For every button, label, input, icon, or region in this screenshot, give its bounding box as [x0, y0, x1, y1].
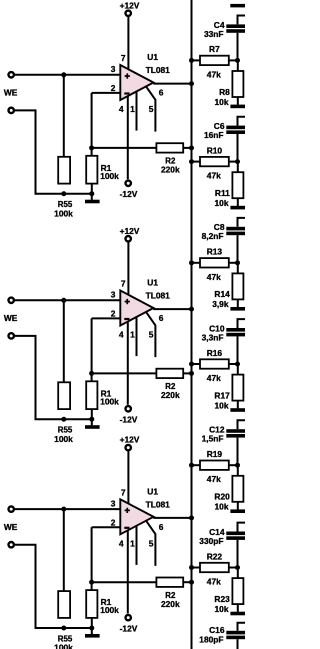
svg-text:16nF: 16nF — [204, 130, 224, 140]
node feedback junction (section 2) — [89, 371, 94, 376]
op-amp U1 triangle (section 3) — [120, 499, 153, 534]
wire C16 top lead to edge — [238, 623, 246, 631]
ground bar below R17 — [230, 408, 245, 412]
node bus junction R10 — [189, 159, 194, 164]
svg-text:7: 7 — [121, 53, 126, 63]
wire pin7 supply (section 3) — [127, 451, 129, 504]
svg-text:+12V: +12V — [120, 0, 140, 10]
svg-text:4: 4 — [119, 104, 124, 114]
junction on WE1 wire (section 3) — [61, 507, 66, 512]
svg-text:6: 6 — [159, 522, 164, 532]
resistor R22 — [200, 563, 229, 572]
svg-text:-12V: -12V — [120, 624, 138, 634]
svg-text:R14: R14 — [214, 289, 230, 299]
wire C6 top lead to edge — [238, 117, 246, 126]
wire C12 bottom lead — [237, 438, 239, 466]
svg-text:10k: 10k — [215, 400, 229, 410]
svg-text:100k: 100k — [54, 643, 73, 649]
node WE input 2 terminal (section 3) — [9, 542, 14, 547]
node output bus junction (section 2) — [189, 307, 194, 312]
wire R13 to node — [229, 262, 238, 264]
junction R55 bottom (section 2) — [61, 417, 66, 422]
svg-text:47k: 47k — [207, 171, 221, 181]
wire R8 top stub — [237, 60, 239, 71]
svg-text:1: 1 — [130, 538, 135, 548]
svg-text:R8: R8 — [219, 87, 230, 97]
capacitor C16 top plate — [226, 631, 245, 635]
svg-text:R17: R17 — [214, 390, 230, 400]
svg-text:7: 7 — [121, 487, 126, 497]
svg-text:R10: R10 — [207, 145, 223, 155]
junction R1 bottom (section 3) — [89, 626, 94, 631]
resistor R11 — [232, 172, 243, 198]
wire output to bus (section 3) — [153, 517, 191, 519]
wire R1 top stub (section 2) — [91, 373, 93, 381]
wire C10 bottom lead — [237, 336, 239, 364]
resistor R55 (section 3) — [58, 591, 70, 618]
wire C14 top lead to edge — [238, 523, 246, 532]
svg-text:WE: WE — [4, 522, 18, 532]
svg-text:10k: 10k — [215, 502, 229, 512]
wire feedback vertical (section 2) — [91, 318, 93, 373]
ground bar below R20 — [230, 509, 245, 513]
svg-text:2: 2 — [111, 309, 116, 319]
node bus junction R19 — [189, 463, 194, 468]
wire WE2 down to bottom rail (section 1) — [14, 110, 93, 193]
svg-text:100k: 100k — [54, 208, 73, 218]
wire junction down to resistor (section 3) — [63, 509, 65, 591]
wire output to bus (section 2) — [153, 308, 191, 310]
svg-text:3: 3 — [111, 290, 116, 300]
svg-text:220k: 220k — [161, 390, 180, 400]
wire R11 ground stub — [237, 198, 239, 206]
vertical signal bus — [191, 0, 193, 649]
wire bus to R7 — [192, 59, 201, 61]
capacitor C14 top plate — [226, 532, 245, 536]
wire R16 to node — [229, 363, 238, 365]
wire bus to R22 — [192, 567, 201, 569]
node output bus junction (section 3) — [189, 515, 194, 520]
svg-text:R11: R11 — [215, 188, 230, 198]
capacitor C14 bottom plate — [226, 536, 245, 540]
wire WE1 to pin3 (section 1) — [14, 74, 119, 76]
svg-text:R7: R7 — [209, 44, 220, 54]
svg-text:2: 2 — [111, 517, 116, 527]
svg-text:100k: 100k — [100, 171, 119, 181]
node WE input 1 terminal (section 3) — [9, 506, 14, 511]
power -12V terminal (section 1) — [126, 181, 131, 186]
op-amp U1 plus input mark (section 2) — [125, 301, 130, 303]
node R7/R8 junction — [235, 58, 240, 63]
svg-text:100k: 100k — [100, 605, 119, 615]
pin 2 wire inverting input (section 1) — [92, 92, 120, 94]
pin 2 wire inverting input (section 2) — [92, 317, 120, 319]
svg-text:100k: 100k — [54, 434, 73, 444]
op-amp U1 minus input mark (section 2) — [124, 318, 129, 320]
power +12V terminal (section 1) — [126, 11, 131, 16]
wire R2 to bus (section 1) — [183, 147, 191, 149]
svg-text:4: 4 — [119, 330, 124, 340]
wire WE1 to pin3 (section 2) — [14, 299, 119, 301]
node output bus junction (section 1) — [189, 81, 194, 86]
node bus junction R16 — [189, 362, 194, 367]
svg-text:3: 3 — [111, 64, 116, 74]
op-amp U1 plus input mark (section 3) — [125, 510, 130, 512]
wire C4 bottom lead — [237, 33, 239, 61]
resistor R8 — [232, 71, 243, 97]
wire R1 bottom stub (section 1) — [91, 183, 93, 193]
pin 4 wire to -12V (section 1) — [127, 96, 129, 179]
svg-text:TL081: TL081 — [146, 65, 171, 75]
node R2 bus junction (section 1) — [189, 145, 194, 150]
node R2 bus junction (section 2) — [189, 371, 194, 376]
resistor R55 (section 2) — [58, 382, 70, 409]
wire R20 ground stub — [237, 502, 239, 510]
capacitor C16 bottom plate — [226, 636, 245, 640]
node R16/R17 junction — [235, 362, 240, 367]
power -12V terminal (section 2) — [126, 406, 131, 411]
wire R2 to bus (section 2) — [183, 372, 191, 374]
wire R20 top stub — [237, 465, 239, 476]
wire R23 ground stub — [237, 604, 239, 612]
wire bus to R19 — [192, 464, 201, 466]
svg-text:3,9k: 3,9k — [212, 299, 229, 309]
pin 4 wire to -12V (section 3) — [127, 531, 129, 614]
node bus junction R22 — [189, 565, 194, 570]
resistor R23 — [232, 578, 243, 604]
wire R8 ground stub — [237, 97, 239, 105]
svg-text:47k: 47k — [207, 69, 221, 79]
svg-text:47k: 47k — [207, 272, 221, 282]
resistor R1 (section 1) — [86, 156, 97, 184]
ground bar below R11 — [230, 206, 245, 210]
svg-text:3,3nF: 3,3nF — [202, 332, 224, 342]
wire bus to R13 — [192, 262, 201, 264]
svg-text:R23: R23 — [214, 594, 230, 604]
op-amp U1 plus input mark (section 1) — [125, 75, 130, 77]
capacitor C8 top plate — [226, 227, 245, 231]
svg-text:10k: 10k — [215, 604, 229, 614]
wire R11 top stub — [237, 162, 239, 173]
node bus junction R13 — [189, 260, 194, 265]
resistor R13 — [200, 258, 229, 267]
svg-text:6: 6 — [159, 88, 164, 98]
capacitor C12 bottom plate — [226, 434, 245, 438]
svg-text:+12V: +12V — [120, 435, 140, 445]
op-amp U1 triangle (section 1) — [120, 65, 153, 100]
junction on WE1 wire (section 1) — [61, 72, 66, 77]
node feedback junction (section 1) — [89, 145, 94, 150]
svg-text:2: 2 — [111, 83, 116, 93]
wire R14 ground stub — [237, 299, 239, 307]
node R19/R20 junction — [235, 463, 240, 468]
svg-text:WE: WE — [4, 88, 18, 98]
wire C16 bottom lead — [237, 639, 239, 649]
ground bar of cut-off unit at top right — [230, 4, 245, 8]
pin 4 wire to -12V (section 2) — [127, 322, 129, 405]
wire junction down to resistor (section 1) — [63, 75, 65, 157]
wire R22 to node — [229, 567, 238, 569]
node bus junction R7 — [189, 58, 194, 63]
resistor R1 (section 3) — [86, 590, 97, 618]
power +12V terminal (section 3) — [126, 445, 131, 450]
ground stub (section 1) — [91, 194, 93, 200]
svg-text:47k: 47k — [207, 577, 221, 587]
svg-text:R20: R20 — [214, 492, 230, 502]
node WE input 2 terminal (section 2) — [9, 333, 14, 338]
wire bus to R16 — [192, 363, 201, 365]
svg-text:U1: U1 — [147, 52, 158, 62]
wire feedback vertical (section 3) — [91, 527, 93, 582]
resistor R2 (section 1) — [156, 143, 183, 152]
svg-text:R16: R16 — [207, 348, 223, 358]
wire R10 to node — [229, 161, 238, 163]
node WE input 1 terminal (section 2) — [9, 298, 14, 303]
wire WE1 to pin3 (section 3) — [14, 508, 119, 510]
pin 1 wire offset null (section 2) — [136, 317, 138, 356]
capacitor C10 bottom plate — [226, 333, 245, 337]
op-amp U1 triangle (section 2) — [120, 291, 153, 326]
pin 5 wire offset null (section 2) — [146, 312, 155, 357]
wire C8 top lead to edge — [238, 218, 246, 227]
wire R1 bottom stub (section 3) — [91, 618, 93, 628]
wire bus to R10 — [192, 161, 201, 163]
wire R1 bottom stub (section 2) — [91, 409, 93, 419]
svg-text:5: 5 — [149, 104, 154, 114]
ground bar below R14 — [230, 307, 245, 311]
node WE input 2 terminal (section 1) — [9, 108, 14, 113]
resistor R7 — [200, 56, 229, 65]
wire C6 bottom lead — [237, 134, 239, 162]
svg-text:-12V: -12V — [120, 189, 138, 199]
node R2 bus junction (section 3) — [189, 580, 194, 585]
wire R1 top stub (section 3) — [91, 582, 93, 590]
wire WE2 down to bottom rail (section 3) — [14, 545, 93, 628]
junction R55 bottom (section 1) — [61, 191, 66, 196]
svg-text:U1: U1 — [147, 278, 158, 288]
node WE input 1 terminal (section 1) — [9, 72, 14, 77]
svg-text:100k: 100k — [100, 396, 119, 406]
node R10/R11 junction — [235, 159, 240, 164]
ground bar (section 1) — [85, 200, 100, 204]
wire junction down to resistor (section 2) — [63, 300, 65, 382]
junction R1 bottom (section 1) — [89, 191, 94, 196]
capacitor C10 top plate — [226, 328, 245, 332]
wire R7 to node — [229, 59, 238, 61]
power -12V terminal (section 3) — [126, 615, 131, 620]
wire feedback vertical (section 1) — [91, 93, 93, 148]
svg-text:10k: 10k — [215, 198, 229, 208]
wire output to bus (section 1) — [153, 83, 191, 85]
wire C10 top lead to edge — [238, 319, 246, 328]
svg-text:5: 5 — [149, 330, 154, 340]
svg-text:10k: 10k — [215, 97, 229, 107]
resistor R2 (section 2) — [156, 369, 183, 378]
svg-text:TL081: TL081 — [146, 500, 171, 510]
capacitor C4 top plate — [226, 24, 245, 28]
wire C4 top lead to edge — [238, 16, 246, 25]
wire R14 top stub — [237, 263, 239, 274]
wire R2 to bus (section 3) — [183, 581, 191, 583]
resistor R1 (section 2) — [86, 381, 97, 409]
wire R23 top stub — [237, 568, 239, 579]
capacitor C12 top plate — [226, 429, 245, 433]
node feedback junction (section 3) — [89, 580, 94, 585]
node R13/R14 junction — [235, 260, 240, 265]
svg-text:47k: 47k — [207, 373, 221, 383]
node R22/R23 junction — [235, 565, 240, 570]
capacitor C4 bottom plate — [226, 29, 245, 33]
wire C12 top lead to edge — [238, 420, 246, 429]
svg-text:6: 6 — [159, 313, 164, 323]
junction R1 bottom (section 2) — [89, 417, 94, 422]
wire pin7 supply (section 1) — [127, 17, 129, 70]
ground stub (section 3) — [91, 628, 93, 634]
svg-text:220k: 220k — [161, 165, 180, 175]
svg-text:1: 1 — [130, 330, 135, 340]
junction R55 bottom (section 3) — [61, 626, 66, 631]
resistor R17 — [232, 375, 243, 401]
svg-text:330pF: 330pF — [199, 536, 223, 546]
capacitor C6 bottom plate — [226, 130, 245, 134]
pin 1 wire offset null (section 3) — [136, 526, 138, 565]
wire feedback to R2 (section 3) — [92, 581, 157, 583]
svg-text:4: 4 — [119, 538, 124, 548]
svg-text:180pF: 180pF — [199, 634, 223, 644]
svg-text:R19: R19 — [207, 449, 223, 459]
svg-text:+12V: +12V — [120, 226, 140, 236]
svg-text:TL081: TL081 — [146, 291, 171, 301]
svg-text:8,2nF: 8,2nF — [202, 231, 224, 241]
op-amp U1 minus input mark (section 3) — [124, 527, 129, 529]
svg-text:47k: 47k — [207, 474, 221, 484]
resistor R19 — [200, 461, 229, 470]
svg-text:220k: 220k — [161, 599, 180, 609]
resistor R10 — [200, 157, 229, 166]
wire R17 ground stub — [237, 401, 239, 409]
resistor R16 — [200, 359, 229, 368]
ground bar below R23 — [230, 612, 245, 616]
wire pin7 supply (section 2) — [127, 242, 129, 295]
resistor R55 (section 1) — [58, 157, 70, 184]
ground bar (section 2) — [85, 425, 100, 429]
wire feedback to R2 (section 2) — [92, 372, 157, 374]
svg-text:U1: U1 — [147, 486, 158, 496]
svg-text:WE: WE — [4, 313, 18, 323]
svg-text:R13: R13 — [207, 247, 223, 257]
resistor R14 — [232, 273, 243, 299]
wire C8 bottom lead — [237, 235, 239, 263]
svg-text:7: 7 — [121, 279, 126, 289]
ground stub (section 2) — [91, 419, 93, 425]
wire R1 top stub (section 1) — [91, 148, 93, 156]
power +12V terminal (section 2) — [126, 236, 131, 241]
wire R17 top stub — [237, 364, 239, 375]
capacitor C8 bottom plate — [226, 232, 245, 236]
op-amp U1 minus input mark (section 1) — [124, 92, 129, 94]
ground bar below R8 — [230, 105, 245, 109]
svg-text:-12V: -12V — [120, 415, 138, 425]
svg-text:5: 5 — [149, 538, 154, 548]
svg-text:R22: R22 — [207, 551, 223, 561]
pin 5 wire offset null (section 3) — [146, 521, 155, 566]
wire R19 to node — [229, 464, 238, 466]
wire C14 bottom lead — [237, 540, 239, 568]
pin 2 wire inverting input (section 3) — [92, 526, 120, 528]
wire feedback to R2 (section 1) — [92, 147, 157, 149]
pin 1 wire offset null (section 1) — [136, 92, 138, 131]
resistor R2 (section 3) — [156, 578, 183, 587]
resistor R20 — [232, 476, 243, 502]
pin 5 wire offset null (section 1) — [146, 87, 155, 132]
ground bar (section 3) — [85, 634, 100, 638]
capacitor C6 top plate — [226, 126, 245, 130]
junction on WE1 wire (section 2) — [61, 298, 66, 303]
svg-text:1,5nF: 1,5nF — [202, 434, 224, 444]
wire WE2 down to bottom rail (section 2) — [14, 336, 93, 419]
svg-text:3: 3 — [111, 499, 116, 509]
svg-text:33nF: 33nF — [204, 29, 224, 39]
svg-text:1: 1 — [130, 104, 135, 114]
